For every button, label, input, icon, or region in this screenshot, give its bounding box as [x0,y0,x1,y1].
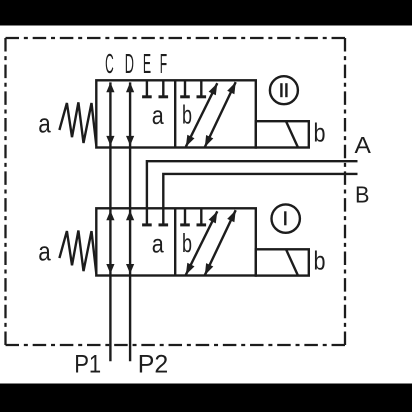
valve I body [96,208,256,275]
svg-text:F: F [160,48,167,79]
svg-text:b: b [314,118,326,148]
valve II blocked ports (position b) [180,80,206,97]
valve II return spring [59,102,96,145]
valve II flow arrow D (position a) heads [126,82,134,92]
valve I position divider [174,208,176,275]
valve I solenoid diagonal [286,249,298,275]
valve I crossed flow arrow 2 (position b) [205,210,236,275]
svg-text:B: B [355,182,370,208]
valve II solenoid box [256,121,309,147]
valve II blocked port F (position a) [159,80,169,97]
svg-text:P2: P2 [138,351,169,379]
valve II crossed flow arrow 2 (position b) [205,82,236,147]
svg-text:a: a [38,108,51,138]
svg-text:a: a [152,100,164,130]
valve I crossed flow arrow 1 (position b) [186,211,218,275]
wire P2 channel (vertical through both valves) [129,82,131,361]
valve II solenoid diagonal [286,121,298,147]
letterbox bar bottom [0,384,412,412]
svg-text:b: b [182,100,192,130]
valve II blocked port E (position a) [142,80,152,97]
valve I solenoid box [256,249,309,275]
valve I return spring [59,231,96,274]
svg-text:P1: P1 [74,351,101,379]
svg-text:a: a [152,228,164,258]
svg-text:C: C [105,48,114,79]
indicator circle II [270,76,298,104]
wire P1 channel (vertical through both valves) [109,82,111,361]
valve I flow arrow D (position a) heads [126,211,134,221]
svg-text:A: A [355,132,372,158]
manifold enclosure (dash-dot boundary) [6,38,346,345]
letterbox bar top [0,0,412,26]
valve I blocked ports (position b) [180,208,206,225]
indicator circle I [272,204,300,232]
wire line A [147,161,358,208]
svg-text:b: b [314,246,326,276]
valve II body [96,80,256,147]
valve I blocked port E (position a) [142,208,152,225]
valve II crossed flow arrow 1 (position b) [186,83,218,147]
svg-text:b: b [182,228,192,258]
valve II flow arrow C (position a) heads [106,82,114,92]
svg-text:D: D [125,48,134,79]
svg-text:a: a [38,236,51,266]
valve I flow arrow C (position a) heads [106,211,114,221]
svg-text:E: E [143,48,151,79]
wire line B [163,174,357,208]
valve II position divider [174,80,176,147]
valve I blocked port F (position a) [159,208,169,225]
